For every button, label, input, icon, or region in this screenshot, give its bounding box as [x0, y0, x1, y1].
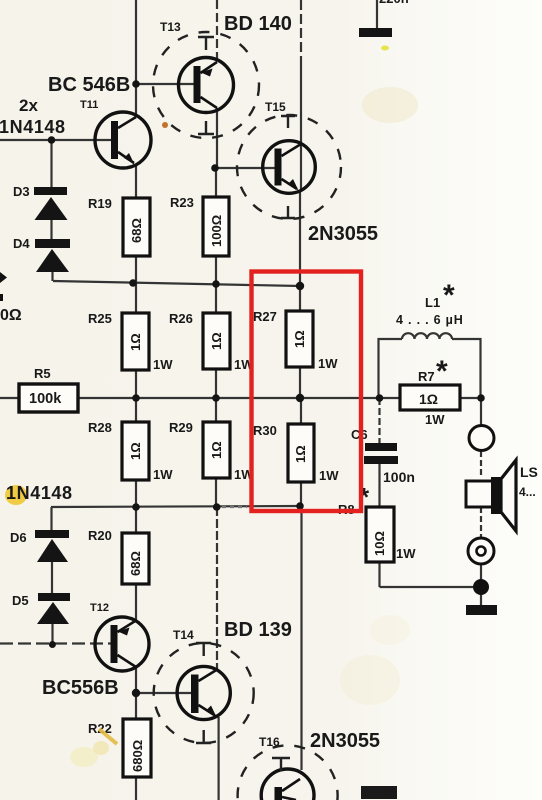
- svg-text:R26: R26: [169, 311, 193, 326]
- svg-text:4...: 4...: [519, 485, 536, 499]
- svg-text:R5: R5: [34, 366, 51, 381]
- svg-text:68Ω: 68Ω: [129, 218, 144, 243]
- svg-text:220n: 220n: [379, 0, 409, 6]
- svg-text:D6: D6: [10, 530, 27, 545]
- svg-text:BD 139: BD 139: [224, 619, 292, 641]
- svg-text:1W: 1W: [319, 468, 339, 483]
- svg-text:1Ω: 1Ω: [128, 442, 143, 460]
- svg-text:BC 546B: BC 546B: [48, 74, 130, 96]
- svg-text:10Ω: 10Ω: [372, 531, 387, 556]
- svg-text:1W: 1W: [318, 356, 338, 371]
- svg-text:1W: 1W: [153, 357, 173, 372]
- svg-text:1Ω: 1Ω: [128, 333, 143, 351]
- svg-text:R28: R28: [88, 420, 112, 435]
- svg-text:R27: R27: [253, 309, 277, 324]
- svg-text:1W: 1W: [153, 467, 173, 482]
- svg-text:T14: T14: [173, 628, 194, 642]
- svg-text:100n: 100n: [383, 469, 415, 485]
- svg-text:T11: T11: [80, 99, 98, 111]
- svg-text:68Ω: 68Ω: [128, 551, 143, 576]
- svg-text:2N3055: 2N3055: [308, 223, 378, 245]
- svg-text:T13: T13: [160, 20, 181, 34]
- svg-text:BD 140: BD 140: [224, 13, 292, 35]
- svg-text:100Ω: 100Ω: [209, 215, 224, 247]
- svg-text:LS: LS: [520, 464, 538, 480]
- svg-text:0Ω: 0Ω: [0, 307, 22, 324]
- svg-text:T12: T12: [90, 602, 109, 614]
- svg-text:D5: D5: [12, 593, 29, 608]
- svg-text:D3: D3: [13, 184, 30, 199]
- svg-text:R30: R30: [253, 423, 277, 438]
- svg-text:1Ω: 1Ω: [293, 445, 308, 463]
- svg-text:BC556B: BC556B: [42, 677, 119, 699]
- svg-text:*: *: [443, 279, 455, 312]
- svg-text:T15: T15: [265, 100, 286, 114]
- svg-text:R7: R7: [418, 369, 435, 384]
- svg-text:1N4148: 1N4148: [6, 483, 73, 503]
- svg-text:R19: R19: [88, 196, 112, 211]
- svg-text:1N4148: 1N4148: [0, 117, 66, 137]
- svg-text:1W: 1W: [396, 546, 416, 561]
- svg-text:4 . . . 6 µH: 4 . . . 6 µH: [396, 313, 464, 327]
- svg-text:R29: R29: [169, 420, 193, 435]
- svg-text:100k: 100k: [29, 391, 62, 407]
- svg-text:D4: D4: [13, 236, 30, 251]
- svg-text:1Ω: 1Ω: [292, 330, 307, 348]
- svg-text:L1: L1: [425, 295, 440, 310]
- svg-text:1Ω: 1Ω: [209, 441, 224, 459]
- svg-text:R20: R20: [88, 528, 112, 543]
- svg-text:R25: R25: [88, 311, 112, 326]
- svg-text:2N3055: 2N3055: [310, 730, 380, 752]
- svg-text:1Ω: 1Ω: [209, 332, 224, 350]
- svg-text:*: *: [436, 355, 448, 388]
- svg-text:1W: 1W: [425, 412, 445, 427]
- svg-text:R23: R23: [170, 195, 194, 210]
- svg-text:1Ω: 1Ω: [419, 391, 438, 407]
- svg-text:T16: T16: [259, 735, 280, 749]
- svg-text:680Ω: 680Ω: [130, 740, 145, 772]
- svg-text:2x: 2x: [19, 96, 38, 115]
